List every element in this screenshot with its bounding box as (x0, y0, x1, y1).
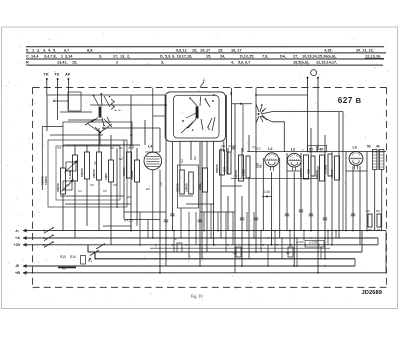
svg-text:R1: R1 (88, 259, 92, 263)
svg-text:R9: R9 (376, 209, 380, 213)
svg-text:B: B (356, 96, 362, 105)
svg-text:15,: 15, (206, 55, 211, 59)
svg-text:24,: 24, (220, 55, 225, 59)
svg-text:TK: TK (44, 73, 49, 77)
svg-text:17: 17 (206, 48, 210, 52)
svg-text:TS: TS (54, 73, 59, 77)
svg-text:C9: C9 (113, 183, 117, 187)
svg-text:27,: 27, (293, 55, 298, 59)
svg-text:2,: 2, (127, 55, 130, 59)
svg-text:JD2689: JD2689 (362, 290, 383, 296)
svg-text:18,5(a,b),: 18,5(a,b), (293, 61, 309, 65)
svg-text:500: 500 (307, 169, 311, 174)
svg-text:3,: 3, (99, 55, 102, 59)
svg-text:C6: C6 (66, 183, 70, 187)
svg-text:+B: +B (15, 271, 20, 275)
svg-text:25000: 25000 (92, 169, 96, 178)
svg-text:N3: N3 (193, 156, 197, 160)
svg-text:D, 5,3, 6, 19,17,18,: D, 5,3, 6, 19,17,18, (160, 55, 192, 59)
svg-text:5,6,: 5,6, (238, 61, 244, 65)
svg-text:SA: SA (110, 146, 114, 150)
svg-text:40: 40 (376, 145, 380, 149)
svg-text:5.: 5. (53, 48, 56, 52)
svg-text:14,: 14, (200, 48, 205, 52)
svg-text:SB: SB (221, 144, 225, 148)
svg-text:o-C37: o-C37 (124, 219, 133, 223)
svg-text:300: 300 (223, 167, 227, 172)
svg-text:-B: -B (15, 264, 19, 268)
svg-text:R2: R2 (146, 187, 150, 191)
svg-text:C4: C4 (78, 189, 82, 193)
svg-text:50: 50 (367, 145, 371, 149)
svg-text:N1: N1 (119, 146, 123, 150)
svg-text:13,: 13, (120, 55, 125, 59)
svg-text:L2: L2 (268, 147, 272, 151)
svg-text:+3V: +3V (14, 243, 21, 247)
svg-text:0,5MΩ: 0,5MΩ (324, 164, 328, 174)
svg-text:4,15.: 4,15. (324, 48, 332, 52)
svg-text:12,19,14,17,: 12,19,14,17, (316, 61, 337, 65)
svg-text:0,1MΩ: 0,1MΩ (68, 169, 72, 179)
svg-text:SA: SA (180, 159, 184, 163)
svg-text:10000: 10000 (184, 183, 188, 192)
svg-text:C45: C45 (264, 190, 270, 194)
svg-text:4,: 4, (231, 61, 234, 65)
svg-text:AF: AF (65, 73, 71, 77)
svg-text:627: 627 (338, 96, 353, 105)
svg-text:8,9.: 8,9. (87, 48, 93, 52)
svg-text:7,9,: 7,9, (262, 55, 268, 59)
svg-text:25000: 25000 (175, 183, 179, 192)
svg-text:6,7: 6,7 (245, 61, 250, 65)
svg-text:40: 40 (319, 148, 323, 152)
svg-text:6,7: 6,7 (64, 48, 69, 52)
svg-text:5.: 5. (26, 48, 29, 52)
svg-text:D,12,25,: D,12,25, (240, 55, 254, 59)
svg-text:9,9,12.: 9,9,12. (176, 48, 188, 52)
svg-text:D4,: D4, (280, 55, 286, 59)
svg-text:2.: 2. (203, 78, 206, 82)
svg-text:47: 47 (377, 228, 381, 232)
svg-text:3,4,7,8,: 3,4,7,8, (44, 55, 57, 59)
svg-text:o.C63: o.C63 (309, 241, 318, 245)
svg-text:1: 1 (32, 48, 34, 52)
svg-text:20. 21. 22,: 20. 21. 22, (356, 48, 374, 52)
svg-text:12,13,16,: 12,13,16, (365, 54, 381, 59)
svg-text:3,: 3, (161, 61, 164, 65)
svg-text:R16: R16 (70, 255, 76, 259)
svg-text:+A: +A (15, 236, 20, 240)
svg-text:L6: L6 (353, 146, 357, 150)
svg-text:17,: 17, (113, 55, 118, 59)
svg-text:2: 2 (116, 61, 118, 65)
svg-text:15.: 15. (218, 48, 223, 52)
svg-text:3,14: 3,14 (65, 55, 73, 59)
svg-text:14,4: 14,4 (31, 55, 39, 59)
svg-text:10000: 10000 (44, 176, 48, 185)
svg-text:50000: 50000 (215, 164, 219, 173)
svg-text:L4: L4 (148, 145, 152, 149)
svg-text:16, 17: 16, 17 (231, 48, 242, 52)
svg-text:R: R (26, 61, 29, 65)
svg-text:15,: 15, (192, 48, 197, 52)
svg-text:S1: S1 (57, 146, 61, 150)
svg-text:2.: 2. (37, 48, 40, 52)
svg-text:L3: L3 (291, 147, 295, 151)
svg-text:C8: C8 (90, 183, 94, 187)
svg-text:R7: R7 (174, 237, 178, 241)
svg-text:C5: C5 (103, 189, 107, 193)
svg-text:50: 50 (259, 164, 263, 168)
svg-text:C7: C7 (252, 145, 256, 149)
svg-text:43: 43 (368, 228, 372, 232)
svg-text:C: C (26, 55, 29, 59)
svg-text:15,: 15, (72, 61, 77, 65)
svg-text:1MΩ: 1MΩ (104, 173, 108, 180)
svg-text:1: 1 (61, 55, 63, 59)
svg-text:3.: 3. (43, 48, 46, 52)
svg-text:R8: R8 (233, 251, 237, 255)
svg-text:R2: R2 (127, 195, 131, 199)
svg-text:10,23,24,25,26(a,b),: 10,23,24,25,26(a,b), (302, 55, 336, 59)
svg-text:50000: 50000 (315, 170, 319, 179)
svg-text:50000: 50000 (80, 168, 84, 177)
svg-text:30000: 30000 (56, 183, 60, 192)
svg-text:4,C45: 4,C45 (228, 144, 236, 148)
